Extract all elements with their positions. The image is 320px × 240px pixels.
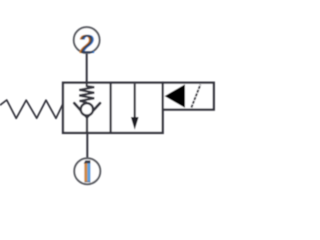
svg-text:2: 2: [80, 29, 94, 59]
